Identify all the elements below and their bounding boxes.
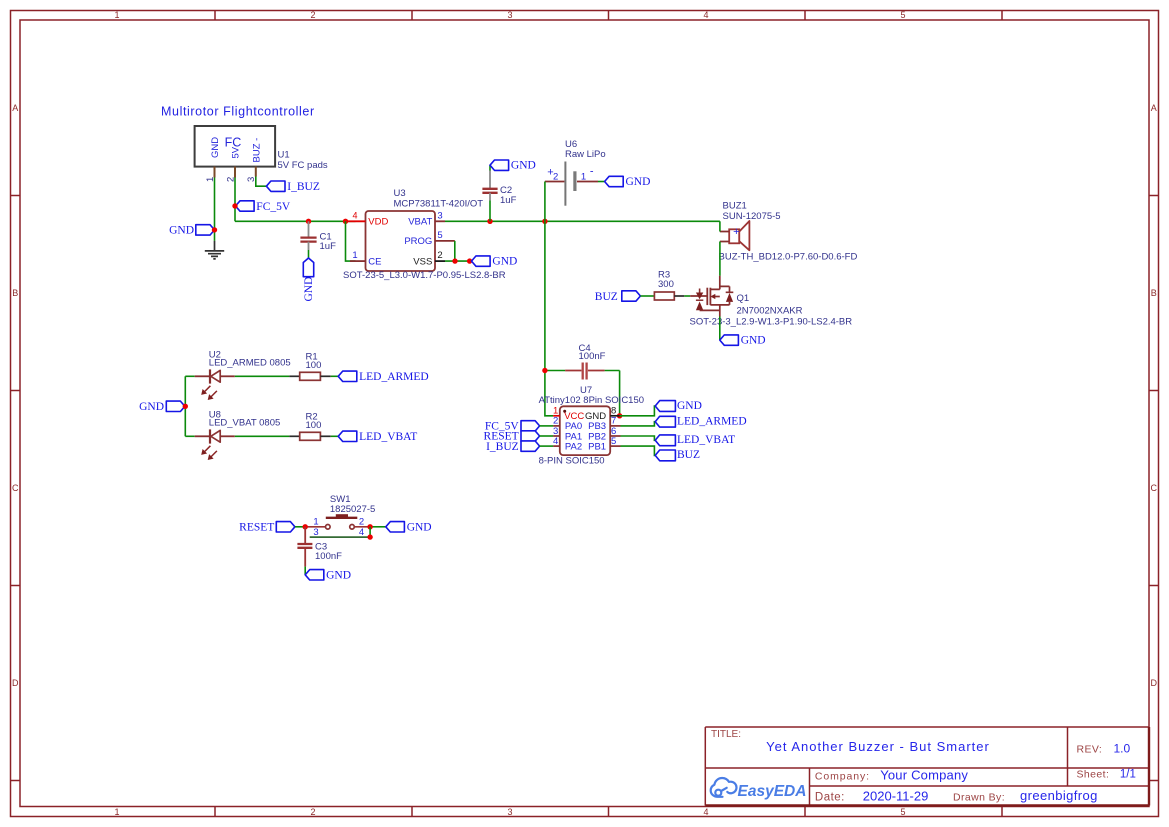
IC U7 ATtiny102 bbox=[539, 385, 644, 467]
svg-text:B: B bbox=[1151, 288, 1157, 298]
switch SW1 bbox=[305, 494, 375, 538]
svg-text:C: C bbox=[1151, 483, 1158, 493]
junction at flag bbox=[467, 258, 472, 263]
wire C4 right down to pin8 bbox=[619, 371, 621, 416]
svg-text:MCP73811T-420I/OT: MCP73811T-420I/OT bbox=[394, 199, 484, 210]
svg-text:5: 5 bbox=[900, 807, 905, 817]
svg-text:100: 100 bbox=[306, 360, 322, 371]
svg-text:TITLE:: TITLE: bbox=[711, 729, 741, 740]
svg-text:8-PIN SOIC150: 8-PIN SOIC150 bbox=[539, 455, 605, 466]
wire VSS to GND flag bbox=[445, 260, 471, 262]
wire rail to buzzer bbox=[719, 221, 721, 231]
svg-text:FC_5V: FC_5V bbox=[256, 201, 291, 213]
junction C4 left bbox=[542, 368, 547, 373]
svg-text:-: - bbox=[590, 166, 594, 178]
svg-text:4: 4 bbox=[553, 436, 558, 447]
svg-text:2: 2 bbox=[553, 172, 558, 183]
svg-text:LED_ARMED 0805: LED_ARMED 0805 bbox=[209, 358, 291, 369]
svg-text:Yet Another Buzzer - But Smart: Yet Another Buzzer - But Smarter bbox=[766, 739, 990, 754]
junction SW1 pin2 bbox=[367, 524, 372, 529]
svg-text:1: 1 bbox=[313, 516, 318, 527]
svg-text:5V: 5V bbox=[231, 146, 242, 158]
net flag GND (battery) bbox=[605, 176, 651, 188]
svg-text:1/1: 1/1 bbox=[1120, 769, 1136, 781]
svg-text:3: 3 bbox=[507, 10, 512, 20]
wire pin3 to I_BUZ bbox=[256, 177, 267, 187]
net flag BUZ (U7) bbox=[655, 449, 700, 461]
wire R2 to flag bbox=[331, 435, 338, 437]
net flag I_BUZ bbox=[266, 181, 319, 193]
svg-text:I_BUZ: I_BUZ bbox=[486, 441, 519, 453]
svg-text:GND: GND bbox=[741, 335, 766, 347]
svg-text:D: D bbox=[1151, 678, 1158, 688]
battery U6 bbox=[545, 139, 606, 206]
wire battery minus to GND bbox=[598, 181, 605, 183]
title block frame bbox=[705, 727, 1149, 806]
svg-text:GND: GND bbox=[677, 400, 702, 412]
LED U2 bbox=[185, 349, 290, 400]
svg-text:GND: GND bbox=[407, 521, 432, 533]
svg-text:greenbigfrog: greenbigfrog bbox=[1020, 788, 1098, 803]
svg-text:RESET: RESET bbox=[239, 522, 274, 534]
svg-text:5: 5 bbox=[611, 436, 616, 447]
svg-text:Multirotor Flightcontroller: Multirotor Flightcontroller bbox=[161, 104, 315, 118]
svg-text:D: D bbox=[12, 678, 19, 688]
svg-text:VDD: VDD bbox=[368, 217, 388, 228]
net flag GND (below C1, vertical) bbox=[303, 258, 315, 302]
svg-text:VBAT: VBAT bbox=[408, 217, 432, 228]
svg-text:VSS: VSS bbox=[413, 256, 432, 267]
svg-text:BUZ -: BUZ - bbox=[252, 138, 263, 163]
svg-text:LED_VBAT: LED_VBAT bbox=[677, 434, 735, 446]
transistor Q1 bbox=[690, 276, 853, 328]
svg-text:1: 1 bbox=[581, 172, 586, 183]
svg-text:Your Company: Your Company bbox=[880, 767, 968, 782]
net flag GND (Q1 source) bbox=[720, 335, 766, 347]
wire BUZ flag to R3 bbox=[640, 295, 654, 297]
capacitor C1 bbox=[300, 221, 336, 252]
LED U8 bbox=[185, 409, 280, 460]
resistor R3 bbox=[654, 270, 684, 301]
net flag GND (U1 pin1) bbox=[169, 225, 214, 237]
net flag I_BUZ (U7) bbox=[486, 441, 539, 453]
svg-text:3: 3 bbox=[437, 210, 442, 221]
wire RESET to pin3 bbox=[540, 435, 554, 437]
svg-text:Drawn By:: Drawn By: bbox=[953, 791, 1005, 803]
svg-text:PROG: PROG bbox=[404, 236, 432, 247]
wire LED U8 to R2 bbox=[235, 435, 290, 437]
svg-text:Q1: Q1 bbox=[737, 293, 750, 304]
svg-text:5: 5 bbox=[437, 230, 442, 241]
junction C1 top bbox=[306, 219, 311, 224]
wire pin5 to BUZ flag bbox=[621, 446, 656, 455]
svg-text:1uF: 1uF bbox=[500, 195, 517, 206]
net flag FC_5V (U7) bbox=[485, 421, 540, 433]
svg-text:U7: U7 bbox=[580, 385, 592, 396]
svg-text:Raw LiPo: Raw LiPo bbox=[565, 149, 606, 160]
svg-text:GND: GND bbox=[303, 277, 315, 302]
junction battery branch bbox=[542, 219, 547, 224]
wire pin7 to LED_ARMED flag bbox=[621, 422, 656, 426]
junction VSS bbox=[452, 258, 457, 263]
svg-text:SOT-23-5_L3.0-W1.7-P0.95-LS2.8: SOT-23-5_L3.0-W1.7-P0.95-LS2.8-BR bbox=[343, 270, 506, 281]
svg-text:2: 2 bbox=[310, 807, 315, 817]
net flag LED_VBAT (U7) bbox=[655, 434, 735, 446]
svg-text:PB1: PB1 bbox=[588, 441, 606, 452]
wire LED common vertical bbox=[184, 376, 186, 436]
wire pin8 to GND flag bbox=[620, 406, 656, 416]
wire LED U2 to R1 bbox=[235, 375, 290, 377]
svg-text:EasyEDA: EasyEDA bbox=[738, 783, 807, 800]
svg-text:REV:: REV: bbox=[1077, 743, 1103, 755]
svg-text:1: 1 bbox=[114, 10, 119, 20]
svg-text:GND: GND bbox=[626, 176, 651, 188]
svg-text:A: A bbox=[12, 103, 18, 113]
net flag BUZ bbox=[595, 291, 641, 303]
wire VDD corner down to CE bbox=[346, 221, 356, 261]
svg-text:1: 1 bbox=[114, 807, 119, 817]
wire rail right bbox=[445, 220, 720, 222]
net flag FC_5V bbox=[236, 201, 291, 213]
net flag LED_ARMED bbox=[338, 371, 429, 383]
wire RESET flag to SW1 bbox=[295, 526, 305, 528]
svg-text:2: 2 bbox=[437, 250, 442, 261]
net flag RESET (SW1) bbox=[239, 522, 295, 534]
svg-text:4: 4 bbox=[703, 807, 708, 817]
wire C3 to GND bbox=[304, 567, 306, 575]
wire rail left bbox=[235, 220, 356, 222]
connector U1 FC bbox=[195, 126, 276, 182]
svg-text:PA2: PA2 bbox=[565, 441, 582, 452]
net flag RESET (U7) bbox=[484, 431, 540, 443]
ground symbol bbox=[205, 241, 224, 259]
svg-text:GND: GND bbox=[326, 569, 351, 581]
net flag GND (above C2) bbox=[490, 160, 536, 172]
svg-text:SOT-23-3_L2.9-W1.3-P1.90-LS2.4: SOT-23-3_L2.9-W1.3-P1.90-LS2.4-BR bbox=[690, 317, 853, 328]
svg-text:300: 300 bbox=[658, 279, 674, 290]
svg-text:BUZ-TH_BD12.0-P7.60-D0.6-FD: BUZ-TH_BD12.0-P7.60-D0.6-FD bbox=[719, 252, 858, 263]
svg-text:Company:: Company: bbox=[815, 770, 870, 782]
svg-text:ATtiny102 8Pin SOIC150: ATtiny102 8Pin SOIC150 bbox=[539, 395, 644, 406]
net flag GND (C3) bbox=[305, 569, 351, 581]
svg-text:GND: GND bbox=[511, 160, 536, 172]
wire pin2 down bbox=[234, 178, 236, 222]
svg-text:5V FC pads: 5V FC pads bbox=[278, 160, 328, 171]
junction SW1 pin4 bbox=[367, 534, 372, 539]
wire battery plus down to rail bbox=[544, 182, 546, 222]
svg-text:LED_ARMED: LED_ARMED bbox=[677, 415, 747, 427]
svg-text:LED_ARMED: LED_ARMED bbox=[359, 371, 429, 383]
svg-text:+: + bbox=[733, 226, 739, 238]
net flag GND (LED common) bbox=[139, 401, 185, 413]
junction SW1 pin1 bbox=[303, 524, 308, 529]
svg-text:100nF: 100nF bbox=[315, 551, 342, 562]
wire SW1 pin2 to GND bbox=[370, 526, 386, 528]
svg-text:C: C bbox=[12, 483, 19, 493]
capacitor C4 bbox=[545, 343, 620, 380]
svg-text:2020-11-29: 2020-11-29 bbox=[863, 788, 929, 803]
wire PROG to VSS bbox=[454, 241, 456, 261]
svg-text:CE: CE bbox=[368, 256, 381, 267]
svg-text:BUZ: BUZ bbox=[677, 449, 700, 461]
wire C1 to GND flag bbox=[308, 250, 310, 258]
svg-text:100nF: 100nF bbox=[579, 351, 606, 362]
svg-text:2N7002NXAKR: 2N7002NXAKR bbox=[737, 305, 803, 316]
svg-text:U3: U3 bbox=[394, 188, 406, 199]
resistor R1 bbox=[289, 351, 330, 380]
svg-text:4: 4 bbox=[352, 210, 357, 220]
svg-text:2: 2 bbox=[359, 516, 364, 527]
net flag LED_VBAT bbox=[338, 431, 417, 443]
svg-text:Sheet:: Sheet: bbox=[1077, 769, 1110, 781]
svg-text:2: 2 bbox=[310, 10, 315, 20]
capacitor C3 bbox=[297, 527, 342, 567]
svg-text:GND: GND bbox=[210, 137, 221, 158]
svg-text:5: 5 bbox=[900, 10, 905, 20]
wire buzzer to Q1 drain bbox=[719, 242, 721, 276]
EasyEDA logo bbox=[711, 778, 737, 797]
junction VDD corner bbox=[343, 219, 348, 224]
wire pin1 down bbox=[214, 178, 216, 241]
wire R1 to flag bbox=[331, 375, 338, 377]
net flag GND (U3 VSS) bbox=[472, 256, 518, 268]
junction at GND flag bbox=[212, 227, 217, 232]
svg-text:LED_VBAT: LED_VBAT bbox=[359, 431, 417, 443]
svg-text:B: B bbox=[12, 288, 18, 298]
svg-text:1825027-5: 1825027-5 bbox=[330, 504, 375, 515]
wire R3 to Q1 gate bbox=[684, 295, 690, 297]
svg-text:A: A bbox=[1151, 103, 1157, 113]
svg-text:1uF: 1uF bbox=[320, 241, 337, 252]
svg-text:SUN-12075-5: SUN-12075-5 bbox=[723, 211, 781, 222]
svg-text:3: 3 bbox=[507, 807, 512, 817]
wire FC_5V to pin2 bbox=[540, 425, 554, 427]
svg-text:100: 100 bbox=[306, 420, 322, 431]
svg-text:GND: GND bbox=[139, 401, 164, 413]
net flag GND (SW1) bbox=[386, 521, 432, 533]
junction at FC_5V bbox=[232, 203, 237, 208]
wire Q1 source to GND bbox=[719, 317, 721, 341]
svg-text:1: 1 bbox=[352, 250, 357, 261]
svg-text:GND: GND bbox=[169, 225, 194, 237]
svg-text:1.0: 1.0 bbox=[1114, 741, 1131, 755]
wire I_BUZ to pin4 bbox=[540, 445, 554, 447]
svg-text:Date:: Date: bbox=[815, 791, 845, 803]
net flag GND (U7 pin8) bbox=[655, 400, 702, 412]
svg-text:LED_VBAT 0805: LED_VBAT 0805 bbox=[209, 418, 280, 429]
IC U3 MCP73811T bbox=[343, 188, 506, 281]
junction LED common bbox=[183, 404, 188, 409]
wire pin6 to LED_VBAT flag bbox=[621, 436, 656, 440]
junction C2 bbox=[487, 219, 492, 224]
svg-text:BUZ: BUZ bbox=[595, 291, 618, 303]
svg-text:GND: GND bbox=[492, 256, 517, 268]
junction pin8 bbox=[617, 413, 622, 418]
svg-text:4: 4 bbox=[703, 10, 708, 20]
wire pin2 to pin4 bbox=[369, 527, 371, 537]
capacitor C2 bbox=[482, 165, 516, 221]
net flag LED_ARMED (U7) bbox=[655, 415, 746, 427]
svg-text:I_BUZ: I_BUZ bbox=[287, 181, 320, 193]
buzzer BUZ1 bbox=[719, 201, 858, 263]
wire rail down to U7 pin1 bbox=[545, 221, 553, 415]
resistor R2 bbox=[289, 411, 330, 440]
